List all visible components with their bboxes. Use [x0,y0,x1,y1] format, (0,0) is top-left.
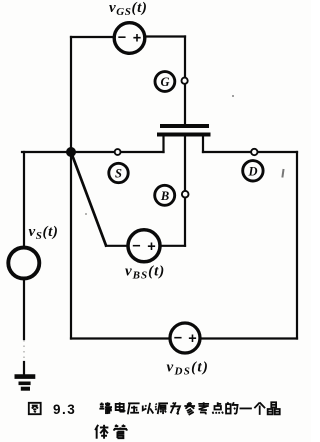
svg-text:+: + [133,31,141,47]
svg-text:−: − [118,30,126,46]
svg-text:vS(t): vS(t) [29,224,59,242]
svg-text:+: + [188,331,196,347]
svg-text:+: + [147,239,155,255]
svg-text:G: G [160,75,169,89]
svg-text:D: D [247,164,257,178]
svg-text:9.3: 9.3 [53,402,76,417]
svg-text:S: S [115,167,122,181]
svg-text:−: − [132,238,140,254]
svg-text:B: B [160,189,169,203]
svg-text:−: − [174,330,182,346]
